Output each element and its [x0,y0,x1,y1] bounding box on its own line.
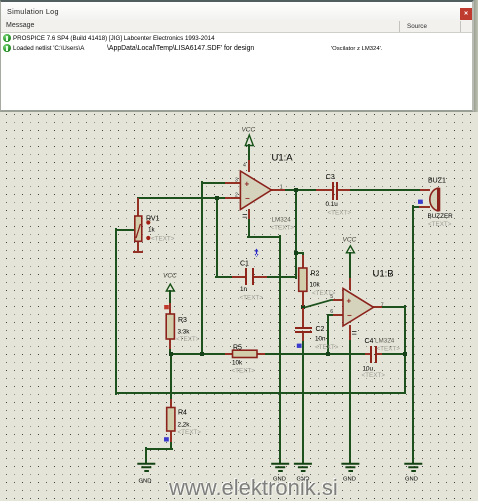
potentiometer RV1 [135,216,142,241]
svg-text:VCC: VCC [242,126,256,133]
capacitor C1 [246,269,253,284]
resistor R2 [299,268,307,291]
pin stub R3 bottom [169,339,171,348]
wire output node to C3 [284,189,317,191]
node C4 right [403,352,407,356]
wire node row y354 left [171,353,226,355]
label GND 2 [273,477,286,483]
pin stubs C4 [366,353,381,355]
svg-text:C4: C4 [365,338,374,345]
svg-text:10k: 10k [310,281,321,288]
pin stub R4 top [170,400,172,408]
label VCC U1:A [242,126,256,133]
simulation log window [0,0,474,112]
svg-text:R5: R5 [233,344,242,351]
svg-text:−: − [245,194,250,203]
svg-text:<TEXT>: <TEXT> [315,344,339,351]
pin number 6 U1:B [330,309,333,315]
wire C3 to buzzer [349,189,421,191]
svg-text:LM324: LM324 [375,338,395,345]
wire C1 right to output node [266,190,296,278]
node R2 bottom [301,305,305,309]
svg-text:R3: R3 [178,317,187,324]
wire U1:A pin4 to VCC [248,145,250,161]
capacitor C4 [371,347,376,362]
label BUZ1 [428,178,454,229]
power VCC arrow U1:A [245,135,253,146]
pin stub RV1 top [137,199,139,216]
svg-text:1k: 1k [148,226,156,233]
resistor R4 [167,408,175,432]
node R4 top [169,352,173,356]
svg-text:<TEXT>: <TEXT> [151,236,175,243]
svg-text:1n: 1n [240,286,248,293]
node R2 top [294,251,298,255]
svg-text:10k: 10k [232,359,243,366]
wire RV1 wiper to left column [116,229,134,394]
pin stub R4 bottom [170,431,172,441]
label C2 [315,326,339,351]
pin stub R2 bottom [302,291,304,305]
marker blue square near buzzer [418,200,423,204]
power VCC arrow R3 [166,284,174,291]
svg-text:<TEXT>: <TEXT> [178,429,202,436]
wire U1:B minus-input corner [328,315,332,354]
svg-text:U1:B: U1:B [373,269,394,280]
svg-text:U1:A: U1:A [272,153,294,164]
pin stubs U1:A inputs [226,183,240,198]
pin number 7 U1:B [381,303,384,309]
label C4 [362,338,386,379]
wire junction to R4 top [170,354,172,400]
ground symbol 2 [272,464,288,471]
pin stub R3 top [169,304,171,314]
svg-text:+: + [245,180,250,189]
svg-text:+: + [347,297,352,306]
wire R2 bottom diagonal to U1:B plus-input [303,300,343,308]
label R5 [232,344,256,374]
wire R4 bottom to GND jog [146,441,172,463]
svg-text:<TEXT>: <TEXT> [240,294,264,301]
wire U1:A minus-input to RV1 top [138,198,226,210]
label R3 [176,317,200,343]
pin stub U1:B gnd [349,326,351,339]
svg-text:3: 3 [235,178,238,184]
wire C4 to right column [381,353,405,355]
pin number 4 U1:A [243,162,246,168]
svg-text:R2: R2 [311,271,320,278]
label VCC U1:B [343,236,357,243]
capacitor C2 [296,328,311,332]
svg-text:VCC: VCC [343,236,357,243]
capacitor C3 [333,183,337,199]
label GND 5 [405,477,418,483]
svg-text:3.3k: 3.3k [178,328,191,335]
power VCC arrow U1:B [346,246,354,253]
buzzer BUZ1 [430,188,440,212]
node U1:A output [294,188,298,192]
pin stub U1:B vcc [349,279,351,289]
svg-text:5: 5 [330,294,333,300]
svg-text:6: 6 [330,309,333,315]
svg-text:<TEXT>: <TEXT> [377,346,401,353]
svg-text:<TEXT>: <TEXT> [232,367,256,374]
marker blue square near R4 [164,437,169,441]
svg-text:<TEXT>: <TEXT> [176,336,200,343]
svg-text:<TEXT>: <TEXT> [271,225,295,232]
marker red dot RV1 a [146,220,150,224]
wire R3 top to VCC [169,291,171,304]
label C1 [240,260,264,301]
label U1:A [272,153,294,164]
pin stub R2 top [302,256,304,268]
pin stubs U1:B inputs [334,300,343,315]
svg-text:4: 4 [243,162,246,168]
wire U1:B pin11 to GND [349,339,351,463]
ground symbol 4 [342,464,358,471]
marker red dot RV1 b [146,236,150,240]
svg-text:2.2k: 2.2k [178,421,191,428]
pin stub U1:A gnd [248,210,250,218]
svg-text:C3: C3 [326,174,335,181]
svg-text:−: − [347,311,352,320]
svg-text:C1: C1 [240,260,249,267]
label RV1 [146,216,175,243]
svg-text:C2: C2 [316,326,325,333]
pin stub U1:B output [374,306,381,308]
svg-text:RV1: RV1 [146,216,160,223]
marker red square near R3 [164,305,169,309]
wire U1:A pin11 down-right to GND [248,218,280,463]
wire U1:A plus-input down-left branch [202,182,226,354]
svg-text:GND: GND [139,479,152,485]
svg-text:LM324: LM324 [272,217,292,224]
svg-text:R4: R4 [178,410,187,417]
pin stubs C3 [317,189,349,191]
label GND 3 [297,477,310,483]
marker blue square near C2 [297,344,302,348]
pin stub RV1 bottom [134,241,142,252]
pin number 3 U1:A [235,178,238,184]
op-amp U1:B [343,288,374,326]
svg-text:7: 7 [381,303,384,309]
ground symbol 3 [295,464,311,471]
pin stub U1:A output [272,189,284,191]
pin number 2 U1:A [235,192,238,198]
wire R3 bottom to junction [169,348,171,354]
wire C2 bottom to GND [302,340,304,463]
pin stubs C1 [233,276,266,278]
svg-text:10n: 10n [315,335,326,342]
resistor R3 [166,314,174,339]
svg-text:<TEXT>: <TEXT> [428,221,452,228]
pin number 11 U1:B [352,332,356,335]
wire U1:B pin4 to VCC [349,253,351,279]
svg-text:BUZ1: BUZ1 [428,178,446,185]
label R2 [310,271,336,298]
resistor R5 [233,350,258,357]
op-amp U1:A [240,171,271,210]
label LM324 U1:B [375,338,400,353]
wire minus-junction down to C1 left [216,198,233,277]
svg-text:1: 1 [280,184,283,190]
pin stubs buzzer [420,190,429,207]
pin number 1 U1:A [280,184,283,190]
svg-text:GND: GND [405,477,418,483]
node U1:A plus branch [200,352,204,356]
label VCC R3 [163,273,177,280]
pin stubs R5 [226,353,264,355]
node minus input U1:A [215,196,219,200]
pin number 11 U1:A [243,215,247,218]
label GND 1 [139,479,152,485]
marker blue probe arrow near C1 [255,249,259,258]
wire output node to R2 top jog [296,253,303,257]
watermark [169,475,349,501]
svg-text:BUZZER: BUZZER [428,213,454,220]
svg-text:<TEXT>: <TEXT> [362,372,386,379]
wire buzzer bottom to GND [413,206,420,463]
svg-text:<TEXT>: <TEXT> [328,209,352,216]
pin arrow RV1 wiper [136,225,141,237]
svg-text:0.1u: 0.1u [326,201,339,208]
pin stubs C2 [302,309,304,340]
ground symbol 5 [405,464,421,471]
svg-text:2: 2 [235,192,238,198]
pin stub U1:A vcc [248,161,250,171]
label R4 [178,410,202,437]
ground symbol 1 [138,464,154,471]
wire bottom feedback rail [116,392,405,394]
label U1:B [373,269,394,280]
svg-text:VCC: VCC [163,273,177,280]
wire R5 to C4 [264,353,366,355]
pin number 5 U1:B [330,294,333,300]
node U1:B minus branch [326,352,330,356]
wire U1:B output to right column [381,306,405,393]
label LM324 U1:A [271,217,295,232]
schematic background [0,112,478,500]
label C3 [326,174,352,217]
label GND 4 [343,477,356,483]
